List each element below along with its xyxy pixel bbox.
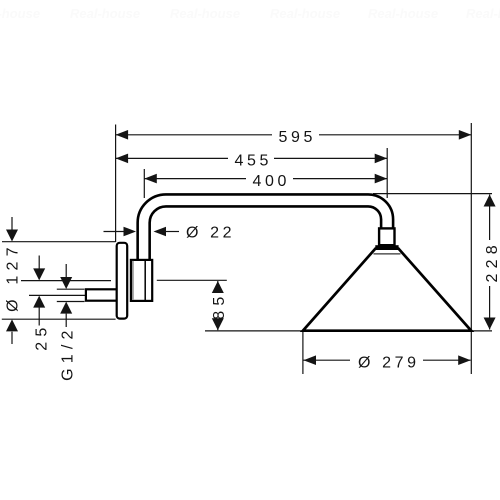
extension line right main: [470, 123, 472, 374]
svg-text:Real-house: Real-house: [170, 6, 240, 21]
dimension 455: [116, 157, 388, 159]
flange bar: [375, 245, 398, 249]
svg-text:Real-house: Real-house: [0, 6, 40, 21]
dimension 85: [217, 281, 219, 330]
svg-text:Real-house: Real-house: [270, 6, 340, 21]
watermark row: [0, 6, 500, 21]
reference line G12 bottom: [57, 301, 85, 303]
svg-text:Ø 127: Ø 127: [5, 242, 22, 312]
reference line plate top: [2, 241, 116, 243]
svg-text:228: 228: [484, 240, 500, 282]
body inner edge line: [144, 260, 146, 301]
head connector: [379, 228, 394, 245]
reference line base plane left of cone: [205, 330, 303, 332]
extension line 455/400 right: [386, 148, 388, 198]
dimension 595: [116, 134, 472, 136]
G1/2 inlet pipe: [86, 289, 117, 300]
dimension diameter 127: [11, 217, 13, 344]
body shading strip: [132, 261, 134, 300]
svg-text:400: 400: [253, 173, 291, 190]
svg-text:25: 25: [33, 322, 50, 350]
svg-text:Ø 22: Ø 22: [186, 225, 235, 242]
shower arm tube: [144, 200, 387, 260]
svg-text:G1/2: G1/2: [59, 325, 76, 381]
reference line plate axis left: [21, 280, 111, 282]
reference line plate bottom: [2, 318, 116, 320]
wall plate escutcheon: [117, 243, 128, 319]
cone body: [303, 249, 471, 331]
extension line 279 left: [302, 331, 304, 374]
svg-text:85: 85: [211, 291, 228, 319]
svg-text:Real-house: Real-house: [70, 6, 140, 21]
svg-text:Real-house: Real-house: [368, 6, 438, 21]
reference line 228 top: [373, 193, 492, 195]
cone accent line: [374, 253, 401, 255]
reference line base plane right of cone: [471, 330, 492, 332]
extension line 400 left: [143, 169, 145, 198]
extension line left (595/455): [115, 125, 117, 243]
dimension 25: [38, 256, 40, 326]
svg-text:595: 595: [279, 129, 317, 146]
svg-text:455: 455: [235, 153, 273, 170]
reference line pipe axis: [29, 294, 88, 296]
reference line plate axis right: [157, 279, 227, 281]
dimension diameter 279: [304, 359, 471, 361]
wall mount body: [131, 260, 152, 301]
dimension 228: [489, 195, 491, 330]
dimension 400: [144, 178, 387, 180]
svg-text:Ø 279: Ø 279: [358, 354, 420, 371]
svg-text:Real-house: Real-house: [466, 6, 500, 21]
dimension diameter 22: [104, 231, 180, 233]
dimension G1/2: [65, 264, 67, 327]
reference line G12 top: [57, 288, 85, 290]
